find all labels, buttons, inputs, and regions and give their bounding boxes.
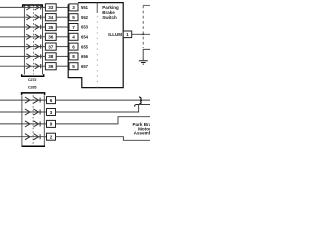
cluster pin box 7: [69, 24, 78, 31]
connector C272 housing left edge: [23, 5, 25, 74]
svg-text:655: 655: [81, 44, 89, 49]
svg-text:4: 4: [72, 35, 75, 40]
svg-text:654: 654: [81, 35, 89, 40]
C265 pin box 6: [47, 97, 56, 104]
instrument cluster outline (bus + staircase + right + top edge): [68, 3, 123, 88]
wire row11 left (C265 row4): [0, 136, 47, 138]
wire row2 left (circuit 552): [0, 16, 45, 18]
wire C265 row2 right with jog up: [56, 105, 151, 113]
connector C272 mating face dashed line: [33, 5, 35, 74]
wire row7 left (circuit 657): [0, 65, 45, 67]
wire ILLUM output: [132, 33, 150, 35]
wire row7 mid: [56, 65, 69, 67]
connector C265 mating face dashed line: [32, 95, 34, 146]
C272 pin box 34: [45, 14, 56, 21]
svg-text:Assembly: Assembly: [134, 131, 150, 136]
C265 row2 terminals >>: [25, 109, 40, 115]
C272 row6 terminals >>: [26, 54, 40, 59]
svg-text:Switch: Switch: [102, 15, 117, 20]
C265 pin box 3: [47, 109, 56, 116]
svg-text:6: 6: [72, 44, 75, 49]
junction dot: [142, 33, 144, 35]
wire row6 mid: [56, 55, 69, 57]
C272 row1 terminals >>: [26, 5, 40, 10]
svg-text:C265: C265: [28, 85, 37, 89]
cluster pin box 8: [69, 53, 78, 60]
dashed boundary top right corner: [143, 4, 150, 6]
svg-text:C272: C272: [28, 78, 37, 82]
connector C272 housing right edge: [42, 5, 44, 74]
wire row1 mid: [56, 6, 69, 8]
connector C272 top bracket: [23, 5, 43, 7]
ground symbol: [139, 61, 148, 64]
svg-text:6: 6: [50, 98, 53, 103]
C265 pin box 9: [47, 120, 56, 127]
cluster pin box 5b: [69, 63, 78, 70]
wire C265 row3 right with jog up: [56, 117, 151, 124]
cluster pin box 6: [69, 43, 78, 50]
svg-text:8: 8: [72, 54, 75, 59]
wire row8 left (C265 row1): [0, 99, 47, 101]
svg-text:3: 3: [72, 5, 75, 10]
wire row3 mid: [56, 26, 69, 28]
cluster pin box 3: [69, 4, 78, 11]
C265 row4 terminals >>: [25, 134, 40, 140]
C272 pin box 36: [45, 33, 56, 40]
C272 pin box 35: [45, 23, 56, 30]
wire row5 mid: [56, 46, 69, 48]
C272 row5 terminals >>: [26, 44, 40, 49]
C265 pin box 2: [47, 133, 56, 140]
connector C265 housing right edge: [43, 95, 45, 146]
svg-text:1: 1: [126, 32, 129, 37]
pin box 1 (ILLUM): [123, 31, 132, 38]
C265 row3 terminals >>: [25, 121, 40, 127]
svg-text:551: 551: [81, 5, 89, 10]
wire row9 left (C265 row2): [0, 111, 47, 113]
wire C265 row1 right: [56, 99, 151, 101]
inline connector hook row2: [135, 105, 139, 107]
svg-text:7: 7: [72, 25, 75, 30]
svg-text:3: 3: [50, 110, 53, 115]
svg-text:34: 34: [48, 15, 54, 20]
svg-text:35: 35: [48, 25, 54, 30]
wire row4 left (circuit 654): [0, 36, 45, 38]
svg-text:5: 5: [72, 64, 75, 69]
wire row3 left (circuit 653): [0, 26, 45, 28]
svg-text:37: 37: [48, 44, 54, 49]
svg-text:36: 36: [48, 35, 54, 40]
svg-text:33: 33: [48, 5, 54, 10]
svg-text:38: 38: [48, 54, 54, 59]
connector C265 housing left edge: [21, 95, 23, 146]
svg-text:39: 39: [48, 64, 54, 69]
cluster pin box 5: [69, 14, 78, 21]
inline connector brace row1: [139, 97, 142, 104]
wire row2 mid: [56, 16, 69, 18]
svg-text:2: 2: [50, 135, 53, 140]
svg-text:5: 5: [72, 15, 75, 20]
C272 row3 terminals >>: [26, 24, 40, 29]
connector C265 bottom bracket: [22, 145, 45, 147]
connector C272 bottom bracket: [22, 74, 44, 76]
wire row4 mid: [56, 36, 69, 38]
svg-text:656: 656: [81, 54, 89, 59]
connector C265 top bracket: [22, 93, 45, 95]
C272 pin box 39: [45, 63, 56, 70]
C272 pin box 33: [45, 4, 56, 11]
C272 row7 terminals >>: [26, 64, 40, 69]
svg-text:9: 9: [50, 122, 53, 127]
svg-text:653: 653: [81, 25, 89, 30]
svg-text:657: 657: [81, 64, 89, 69]
svg-text:552: 552: [81, 15, 89, 20]
wire row10 left (C265 row3): [0, 123, 47, 125]
wire row5 left (circuit 655): [0, 46, 45, 48]
cluster pin box 4: [69, 33, 78, 40]
parking brake switch dashed boundary: [96, 3, 98, 13]
C272 pin box 37: [45, 43, 56, 50]
svg-text:ILLUM: ILLUM: [108, 32, 122, 37]
wire row6 left (circuit 656): [0, 55, 45, 57]
wire C265 row4 right with jog down: [56, 137, 151, 141]
C272 pin box 38: [45, 53, 56, 60]
C265 row1 terminals >>: [25, 97, 40, 103]
dashed boundary vertical: [142, 5, 144, 48]
wire row1 left (circuit 551): [0, 6, 45, 8]
wire to ground: [143, 49, 150, 60]
C272 row2 terminals >>: [26, 15, 40, 20]
C272 row4 terminals >>: [26, 34, 40, 39]
